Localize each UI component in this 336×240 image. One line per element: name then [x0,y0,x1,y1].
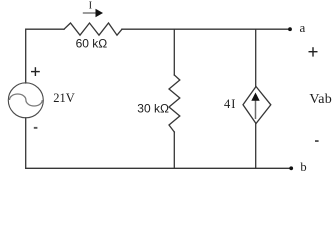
resistor 30k zigzag [169,75,180,132]
wire diamond branch bottom [255,124,257,169]
node a dot [288,27,292,31]
svg-text:4I: 4I [224,97,236,111]
dependent source arrow head [251,93,259,101]
svg-text:Vab: Vab [309,92,332,107]
AC source V1 circle [8,83,43,118]
dependent source U1 diamond [243,87,271,124]
wire resistor to node a [122,28,290,30]
svg-text:I: I [89,1,93,12]
source minus sign [34,127,38,129]
Vab plus sign [309,47,318,56]
Vab minus sign [315,140,319,142]
node b dot [289,166,293,170]
wire 30k branch bottom [173,132,175,168]
source plus sign [31,67,40,76]
svg-text:30 kΩ: 30 kΩ [137,101,169,115]
wire top-left to resistor [26,29,64,83]
wire bottom [26,167,292,169]
AC source sine wave [10,94,43,106]
current arrow I head [96,9,104,17]
svg-text:60 kΩ: 60 kΩ [76,36,108,50]
svg-text:21V: 21V [53,91,75,105]
wire diamond branch top [255,29,257,86]
dependent source arrow shaft [255,100,257,119]
svg-text:b: b [300,160,306,174]
wire left below source [25,118,27,169]
wire 30k branch top [173,29,175,75]
current arrow I shaft [83,12,96,14]
resistor R 60k zigzag [64,23,122,35]
svg-text:a: a [300,20,306,35]
